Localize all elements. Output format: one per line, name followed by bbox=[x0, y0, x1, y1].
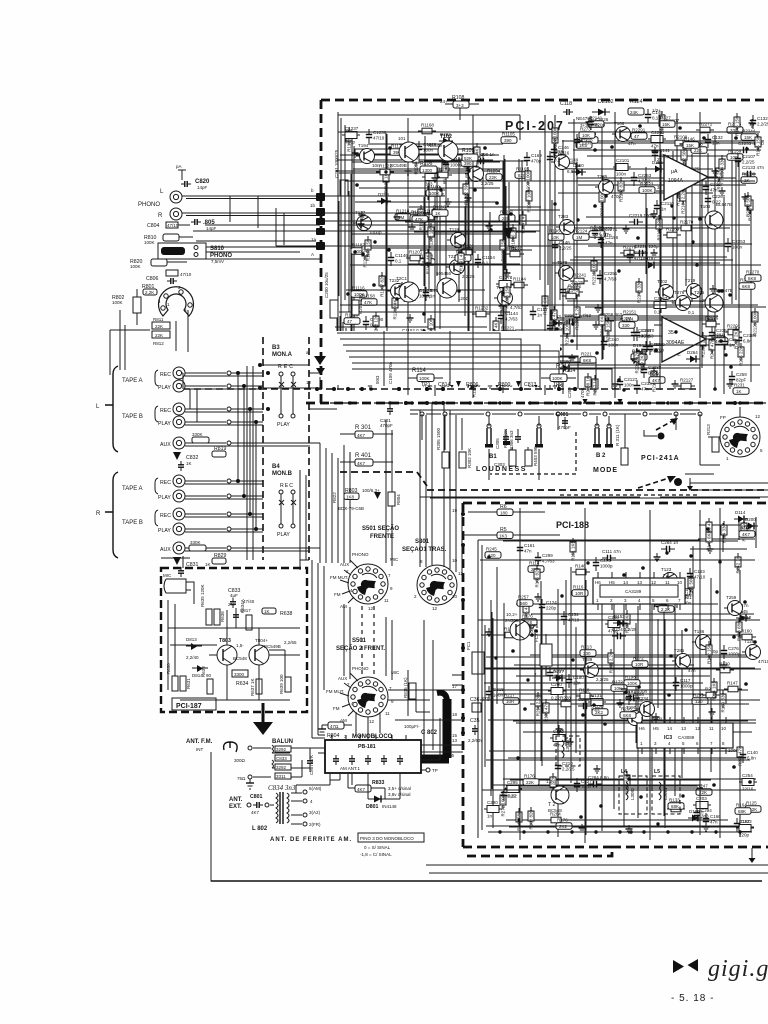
wire stub bbox=[319, 377, 321, 389]
resistor-v R1210 bbox=[392, 294, 398, 320]
svg-text:R2151: R2151 bbox=[623, 310, 637, 315]
wire bbox=[554, 317, 716, 319]
resistor-v R1218 bbox=[373, 312, 379, 337]
svg-text:R2141 6K8: R2141 6K8 bbox=[600, 314, 605, 337]
mid-board down arrow bbox=[503, 214, 513, 239]
svg-text:2,2/25: 2,2/25 bbox=[757, 122, 768, 127]
transistor T259 bbox=[724, 595, 752, 620]
svg-text:T283: T283 bbox=[558, 214, 569, 219]
rotary selector S501 front section R bbox=[326, 638, 400, 724]
resistor R638 bbox=[262, 608, 293, 617]
resistor-h R2145 bbox=[562, 288, 580, 299]
ground bbox=[703, 823, 710, 831]
resistor R301 bbox=[340, 425, 393, 438]
long verticals PCI-188 bbox=[520, 508, 720, 843]
svg-text:3300: 3300 bbox=[234, 672, 245, 677]
resistor R635 bbox=[200, 584, 212, 625]
resistor R802 bbox=[112, 289, 141, 325]
cap-h C284 bbox=[588, 775, 609, 787]
svg-text:SEÇÃO 2 FRENT.: SEÇÃO 2 FRENT. bbox=[336, 645, 385, 652]
svg-text:C2107: C2107 bbox=[742, 154, 756, 159]
svg-text:47: 47 bbox=[634, 134, 640, 139]
ground bbox=[486, 222, 493, 230]
svg-text:1n: 1n bbox=[487, 814, 493, 819]
svg-text:R114: R114 bbox=[412, 368, 427, 374]
resbox R163 bbox=[739, 526, 755, 538]
svg-text:C140: C140 bbox=[747, 750, 758, 755]
resbox R2141 bbox=[588, 116, 604, 128]
capacitor C401 bbox=[556, 412, 571, 430]
svg-text:R2170: R2170 bbox=[680, 220, 694, 225]
resistor-v R183 bbox=[528, 807, 534, 830]
wire bbox=[530, 654, 749, 656]
svg-text:R227 2K2: R227 2K2 bbox=[734, 329, 739, 350]
top right C118 DZ102 R124 bbox=[560, 99, 661, 128]
wire rails PCI-188 left edge bbox=[478, 540, 740, 838]
wires MON column to staircase bbox=[263, 365, 337, 443]
ground balun bbox=[246, 779, 254, 789]
svg-text:NE479C: NE479C bbox=[576, 116, 594, 121]
svg-text:C152: C152 bbox=[568, 612, 579, 617]
svg-text:A: A bbox=[311, 252, 314, 257]
svg-text:C259: C259 bbox=[736, 372, 747, 377]
junction bbox=[509, 212, 513, 216]
svg-text:22K: 22K bbox=[155, 324, 163, 329]
resbox R176 bbox=[556, 818, 572, 830]
junction bbox=[706, 527, 710, 531]
svg-text:4,7/63: 4,7/63 bbox=[510, 305, 523, 310]
svg-text:R271 560: R271 560 bbox=[689, 577, 694, 597]
svg-text:R151 1K5: R151 1K5 bbox=[571, 541, 576, 562]
wire bbox=[436, 168, 438, 276]
svg-text:C169: C169 bbox=[531, 153, 542, 158]
svg-text:FC1: FC1 bbox=[466, 641, 471, 650]
junction bbox=[734, 136, 738, 140]
capacitor C833 bbox=[228, 588, 241, 608]
svg-text:68K: 68K bbox=[671, 804, 679, 809]
resistor-v R183 bbox=[550, 773, 556, 797]
resbox R2211 bbox=[712, 333, 728, 345]
wire bbox=[573, 119, 575, 337]
resistor-h R1293 bbox=[418, 357, 436, 368]
svg-text:47/10: 47/10 bbox=[758, 659, 768, 664]
cap-v C205 bbox=[520, 622, 539, 636]
svg-text:100K: 100K bbox=[144, 240, 155, 245]
svg-text:ANT. DE FERRITE AM.: ANT. DE FERRITE AM. bbox=[270, 837, 352, 843]
junction bbox=[638, 401, 642, 405]
resistor-v R1168 bbox=[365, 236, 371, 261]
resbox R1187 bbox=[351, 243, 367, 255]
resistor-v R1178 bbox=[346, 127, 352, 152]
ground bbox=[407, 314, 414, 322]
resistor R221 bbox=[580, 352, 596, 364]
wire bbox=[663, 574, 665, 816]
svg-text:T804+: T804+ bbox=[255, 638, 268, 643]
wire bbox=[510, 150, 562, 380]
resistor R229 bbox=[639, 350, 645, 373]
monobloco PB-181 box bbox=[325, 734, 421, 773]
wire bbox=[368, 143, 503, 145]
wire bbox=[699, 524, 748, 526]
svg-text:T2C1: T2C1 bbox=[396, 276, 408, 281]
svg-text:C804: C804 bbox=[147, 223, 160, 229]
svg-text:12: 12 bbox=[458, 571, 464, 576]
svg-text:47n: 47n bbox=[553, 743, 561, 748]
svg-text:C1278: C1278 bbox=[499, 275, 513, 280]
svg-text:C834 3n3: C834 3n3 bbox=[268, 784, 296, 792]
svg-text:C299: C299 bbox=[542, 553, 553, 558]
wire bbox=[505, 787, 703, 789]
resistor R302 bbox=[459, 448, 472, 468]
svg-text:C224 2,2/25: C224 2,2/25 bbox=[612, 627, 637, 632]
svg-text:R: R bbox=[96, 511, 101, 517]
svg-text:REC: REC bbox=[160, 408, 171, 414]
svg-text:R2129 100K: R2129 100K bbox=[753, 311, 758, 336]
resbox R254 bbox=[645, 723, 661, 735]
svg-text:6K8: 6K8 bbox=[583, 358, 592, 363]
resistor-v R1165 bbox=[442, 159, 448, 184]
resbox R1104 bbox=[499, 338, 515, 350]
transistor T232 bbox=[387, 278, 414, 303]
capacitor C132 bbox=[750, 115, 768, 129]
svg-text:47/10: 47/10 bbox=[373, 136, 385, 141]
PCI-187 board title bbox=[172, 698, 216, 710]
monitor switch B3 MON A bbox=[272, 345, 296, 428]
svg-text:C303: C303 bbox=[494, 462, 505, 467]
svg-text:TAPE A: TAPE A bbox=[122, 378, 143, 384]
transistor Y1 bbox=[505, 612, 538, 640]
cap-v C222 bbox=[734, 818, 752, 832]
svg-text:C814: C814 bbox=[438, 382, 451, 388]
wire bbox=[738, 159, 740, 345]
ground bbox=[405, 167, 412, 175]
wires band verticals bbox=[422, 414, 700, 480]
svg-text:20: 20 bbox=[452, 594, 458, 599]
staircase wires redraw bbox=[337, 333, 612, 389]
wire bbox=[623, 587, 625, 826]
svg-text:2,2/25: 2,2/25 bbox=[562, 767, 575, 772]
svg-text:R247 47K: R247 47K bbox=[710, 339, 715, 359]
svg-text:R1184 4K7: R1184 4K7 bbox=[426, 252, 431, 275]
wire bbox=[489, 750, 742, 752]
junction bbox=[713, 387, 717, 391]
junction bbox=[558, 347, 562, 351]
wire bbox=[698, 538, 755, 540]
resistor-v R115 bbox=[523, 599, 529, 622]
cap-v C166 bbox=[703, 813, 721, 827]
wire bbox=[491, 612, 493, 789]
svg-text:T202: T202 bbox=[657, 279, 668, 284]
terminal 16 label bbox=[449, 738, 458, 758]
svg-text:H6: H6 bbox=[595, 580, 601, 585]
svg-text:22/16: 22/16 bbox=[558, 151, 570, 156]
junction bbox=[717, 289, 721, 293]
clear band for staircase bbox=[334, 331, 560, 385]
svg-text:R299 68K: R299 68K bbox=[625, 774, 630, 794]
transistor T102 bbox=[428, 134, 458, 161]
resistor-v R1167 bbox=[379, 272, 385, 297]
resistor-v R2104 bbox=[719, 155, 725, 180]
wire bbox=[506, 819, 728, 821]
junction bbox=[570, 339, 574, 343]
svg-text:Y1: Y1 bbox=[532, 624, 538, 630]
junction bbox=[526, 678, 529, 681]
resistor-h R2175 bbox=[683, 167, 701, 178]
resistor-v R2244 bbox=[716, 164, 722, 190]
ground bbox=[499, 302, 506, 310]
diode D282 bbox=[439, 132, 453, 145]
svg-text:R2214: R2214 bbox=[620, 317, 634, 322]
junction bbox=[684, 628, 687, 631]
wire rails PCI-207 bbox=[338, 132, 760, 368]
svg-text:12: 12 bbox=[368, 606, 374, 611]
svg-text:L5: L5 bbox=[654, 769, 660, 775]
wire verticals through band bbox=[384, 331, 473, 386]
svg-text:180: 180 bbox=[500, 511, 508, 516]
svg-text:FM: FM bbox=[334, 592, 341, 597]
elco C1237 bbox=[342, 126, 360, 145]
cap-v C161 bbox=[517, 542, 535, 556]
svg-text:T205: T205 bbox=[694, 290, 705, 295]
svg-text:10n: 10n bbox=[573, 681, 581, 686]
junction bbox=[608, 401, 612, 405]
junction bbox=[579, 815, 583, 819]
svg-text:13: 13 bbox=[681, 726, 687, 731]
wire bbox=[577, 177, 736, 179]
resistor R803 group bbox=[332, 488, 401, 511]
svg-text:TAPE B: TAPE B bbox=[122, 414, 143, 420]
svg-text:47/10: 47/10 bbox=[634, 256, 646, 261]
cap-v C275 bbox=[593, 557, 613, 571]
svg-text:R2145: R2145 bbox=[565, 288, 579, 293]
svg-text:C1146: C1146 bbox=[395, 253, 408, 258]
diode D250 bbox=[572, 163, 586, 176]
junction bbox=[369, 387, 373, 391]
resbox R1165 bbox=[515, 167, 531, 179]
svg-text:PCI-187: PCI-187 bbox=[176, 703, 202, 710]
svg-text:S801: S801 bbox=[415, 539, 430, 545]
svg-text:1000p: 1000p bbox=[419, 294, 432, 299]
cap-v C2253 bbox=[631, 172, 652, 186]
label ANT EXT bbox=[229, 797, 243, 810]
capacitor C230 bbox=[647, 341, 665, 355]
svg-text:1K8: 1K8 bbox=[346, 495, 355, 500]
resistor-v R2273 bbox=[636, 278, 642, 303]
resbox R125 bbox=[745, 801, 761, 813]
svg-text:R136 47K: R136 47K bbox=[544, 702, 549, 722]
junction bbox=[654, 348, 658, 352]
ground bbox=[394, 213, 401, 221]
wire bbox=[685, 142, 687, 286]
resistor-v R2262 bbox=[618, 177, 624, 202]
wire bbox=[508, 757, 746, 759]
label 5(AM) wire bbox=[330, 718, 463, 785]
wire bbox=[350, 247, 516, 249]
svg-text:R1128: R1128 bbox=[437, 167, 450, 172]
wire bbox=[424, 160, 527, 162]
C35 label bbox=[468, 718, 484, 743]
resistor-v R1233 bbox=[504, 283, 510, 309]
svg-text:C150: C150 bbox=[554, 321, 565, 326]
svg-text:0,22: 0,22 bbox=[591, 707, 600, 712]
transistor T2 bbox=[546, 779, 569, 813]
wire bbox=[699, 595, 701, 738]
resistor R148 bbox=[691, 142, 707, 154]
sinal note box bbox=[358, 833, 424, 857]
wire bbox=[722, 523, 724, 552]
svg-text:MIC: MIC bbox=[390, 557, 399, 562]
resbox R2282 bbox=[589, 226, 605, 238]
svg-text:2(FR): 2(FR) bbox=[309, 822, 321, 827]
svg-text:PCI-241A: PCI-241A bbox=[641, 455, 680, 462]
wire bbox=[534, 633, 536, 786]
resbox R2244 bbox=[631, 349, 647, 361]
resistor-v R299 bbox=[624, 771, 630, 794]
svg-text:2,2/25: 2,2/25 bbox=[742, 160, 755, 165]
coil L4 dashed bbox=[619, 769, 647, 814]
rotary selector FP (tuning) bbox=[708, 407, 763, 461]
svg-text:T279: T279 bbox=[685, 278, 696, 283]
svg-text:L3: L3 bbox=[558, 729, 564, 735]
resistor-v R250 bbox=[535, 692, 541, 716]
wire bbox=[530, 703, 749, 705]
transistor T285 bbox=[672, 648, 696, 673]
wire bbox=[570, 567, 572, 783]
svg-text:C2168: C2168 bbox=[638, 328, 652, 333]
wire bbox=[587, 155, 741, 157]
junction dots left of MON bbox=[258, 363, 270, 411]
resistor-v R2249 bbox=[599, 188, 605, 216]
wire bbox=[354, 153, 475, 155]
resistor-v R1184 bbox=[425, 249, 431, 274]
ground bbox=[680, 140, 687, 148]
elco C203 bbox=[693, 796, 711, 815]
junction bbox=[571, 322, 575, 326]
svg-text:BC548: BC548 bbox=[548, 808, 562, 813]
resbox R225 bbox=[674, 584, 690, 596]
wire bbox=[516, 722, 756, 724]
junction bbox=[702, 136, 706, 140]
wire bbox=[503, 603, 505, 790]
wire L phono to board bbox=[182, 196, 320, 199]
svg-text:14pF: 14pF bbox=[197, 185, 208, 190]
resbox R2168 bbox=[739, 278, 755, 290]
junction bbox=[422, 312, 426, 316]
junction bbox=[732, 635, 736, 639]
ground bbox=[742, 193, 749, 201]
svg-text:3,8v c/sinal: 3,8v c/sinal bbox=[388, 792, 411, 797]
switch contact row bbox=[420, 412, 702, 416]
wire bbox=[339, 172, 478, 174]
wire bbox=[424, 198, 426, 282]
svg-text:47K: 47K bbox=[364, 300, 372, 305]
resistor-v R1247 bbox=[520, 211, 526, 234]
IC PC1 bbox=[593, 572, 689, 610]
jack rows R bbox=[158, 475, 320, 554]
junction bbox=[593, 148, 597, 152]
resistor-v R2143 bbox=[651, 367, 657, 392]
svg-text:1K: 1K bbox=[205, 562, 211, 567]
transistor T222 bbox=[465, 161, 494, 186]
diode D197 bbox=[644, 256, 658, 269]
C200 elco bbox=[324, 272, 338, 318]
wire bbox=[351, 135, 353, 355]
svg-text:15K: 15K bbox=[686, 143, 694, 148]
svg-text:13: 13 bbox=[452, 738, 458, 743]
svg-text:C806: C806 bbox=[146, 276, 159, 282]
junction bbox=[581, 713, 585, 717]
resbox R2214 bbox=[619, 317, 635, 329]
resbox R2159 bbox=[727, 149, 743, 161]
svg-text:C2260: C2260 bbox=[712, 194, 726, 199]
wire bbox=[337, 159, 493, 161]
svg-text:MODE: MODE bbox=[593, 467, 618, 474]
wire bbox=[663, 620, 665, 748]
resbox R245 bbox=[485, 547, 501, 559]
monitor switch column dashed border bbox=[263, 337, 309, 560]
wire from tape aux to PCI-187 bbox=[161, 556, 309, 570]
wire bbox=[578, 184, 746, 186]
capacitor C820 bbox=[176, 164, 210, 190]
wire bbox=[523, 731, 752, 733]
junction bbox=[395, 297, 399, 301]
svg-text:R172: R172 bbox=[633, 656, 644, 661]
ground bbox=[672, 380, 679, 388]
wire bbox=[503, 540, 738, 542]
resistor R231 bbox=[733, 383, 749, 395]
transistor T119 bbox=[447, 227, 470, 252]
resistor-h R1201 bbox=[406, 250, 424, 261]
wire bbox=[339, 311, 510, 313]
svg-text:C124: C124 bbox=[546, 600, 557, 605]
resistor-v R2146 bbox=[676, 331, 682, 356]
ground bbox=[569, 354, 576, 362]
svg-text:47n: 47n bbox=[605, 241, 613, 246]
junction bbox=[629, 830, 633, 834]
wires rotary to tape bus bbox=[110, 310, 188, 375]
svg-text:R: R bbox=[158, 213, 163, 219]
cap-v C215 bbox=[486, 686, 504, 700]
svg-text:C813: C813 bbox=[524, 382, 537, 388]
wire bbox=[660, 150, 662, 313]
wire bbox=[557, 589, 559, 837]
svg-text:R165 820: R165 820 bbox=[535, 568, 540, 588]
resistor-v R1157 bbox=[474, 143, 480, 168]
wire bbox=[637, 606, 639, 818]
svg-text:6,8n: 6,8n bbox=[599, 232, 608, 237]
resbox R2199 bbox=[582, 132, 598, 144]
wire bbox=[738, 519, 740, 540]
staircase risers to board above bbox=[337, 310, 346, 350]
svg-text:R631: R631 bbox=[186, 678, 191, 689]
svg-text:C132: C132 bbox=[712, 135, 723, 140]
svg-text:R 401: R 401 bbox=[355, 453, 372, 459]
junction bbox=[517, 818, 520, 821]
resistor R305 bbox=[436, 427, 449, 468]
svg-text:R193 68K: R193 68K bbox=[737, 621, 742, 641]
cap-h C284 bbox=[661, 540, 679, 552]
arrow at PCI-188 bottom right bbox=[749, 848, 756, 863]
wire bbox=[570, 364, 760, 366]
capacitor C832 with ground arrow bbox=[173, 452, 199, 471]
svg-text:R1167 820: R1167 820 bbox=[380, 275, 385, 297]
wire bbox=[657, 619, 659, 708]
svg-text:R159 330: R159 330 bbox=[721, 693, 726, 713]
svg-text:1,2v: 1,2v bbox=[546, 779, 555, 784]
svg-text:47n: 47n bbox=[688, 668, 696, 673]
switch B2 MODE bbox=[593, 424, 618, 474]
cap-v C277 bbox=[547, 667, 565, 681]
